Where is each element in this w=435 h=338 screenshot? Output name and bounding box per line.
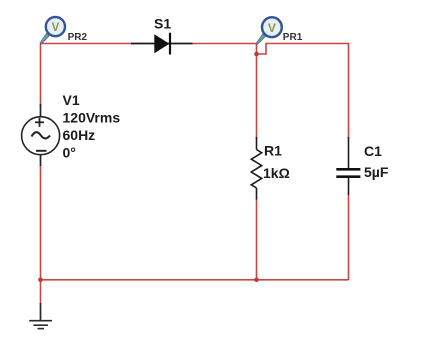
wire R1 branch from junction down	[256, 54, 258, 139]
junction dot at PR1 node	[254, 52, 259, 57]
sine symbol of V1	[32, 132, 51, 138]
svg-text:0°: 0°	[63, 145, 76, 161]
resistor R1	[251, 137, 261, 200]
wire V1 bottom down to bottom rail	[40, 165, 42, 280]
svg-text:60Hz: 60Hz	[63, 127, 96, 143]
voltage probe PR2	[40, 17, 65, 44]
junction dot bottom R1	[254, 278, 259, 283]
wire PR1 step jog	[257, 44, 349, 55]
svg-text:120Vrms: 120Vrms	[63, 109, 121, 125]
wire stub to ground	[40, 280, 42, 304]
voltage probe PR1	[256, 17, 281, 44]
capacitor C1	[336, 137, 360, 195]
wire diode to PR1 step	[193, 43, 258, 45]
svg-text:V: V	[268, 21, 276, 35]
plus sign of V1	[35, 121, 44, 123]
minus sign of V1	[36, 150, 47, 152]
wire right branch down to C1	[348, 43, 350, 139]
svg-text:R1: R1	[264, 143, 282, 159]
wire top-left to diode (net from V1 plus)	[41, 43, 133, 45]
AC source V1	[22, 104, 60, 166]
svg-text:PR2: PR2	[68, 32, 88, 43]
svg-text:S1: S1	[154, 16, 171, 32]
wire left branch top corner down to V1	[40, 43, 42, 106]
svg-text:V1: V1	[63, 92, 80, 108]
wire C1 bottom to bottom rail	[348, 194, 350, 280]
svg-text:5µF: 5µF	[364, 164, 389, 180]
wire R1 bottom to bottom rail	[256, 199, 258, 281]
diode S1	[131, 33, 193, 55]
ground	[29, 303, 52, 329]
svg-text:V: V	[52, 22, 60, 34]
svg-text:C1: C1	[364, 143, 382, 159]
wire bottom rail	[41, 279, 349, 281]
junction dot bottom-left	[38, 278, 43, 283]
svg-text:1kΩ: 1kΩ	[263, 165, 290, 181]
svg-text:PR1: PR1	[283, 32, 303, 43]
